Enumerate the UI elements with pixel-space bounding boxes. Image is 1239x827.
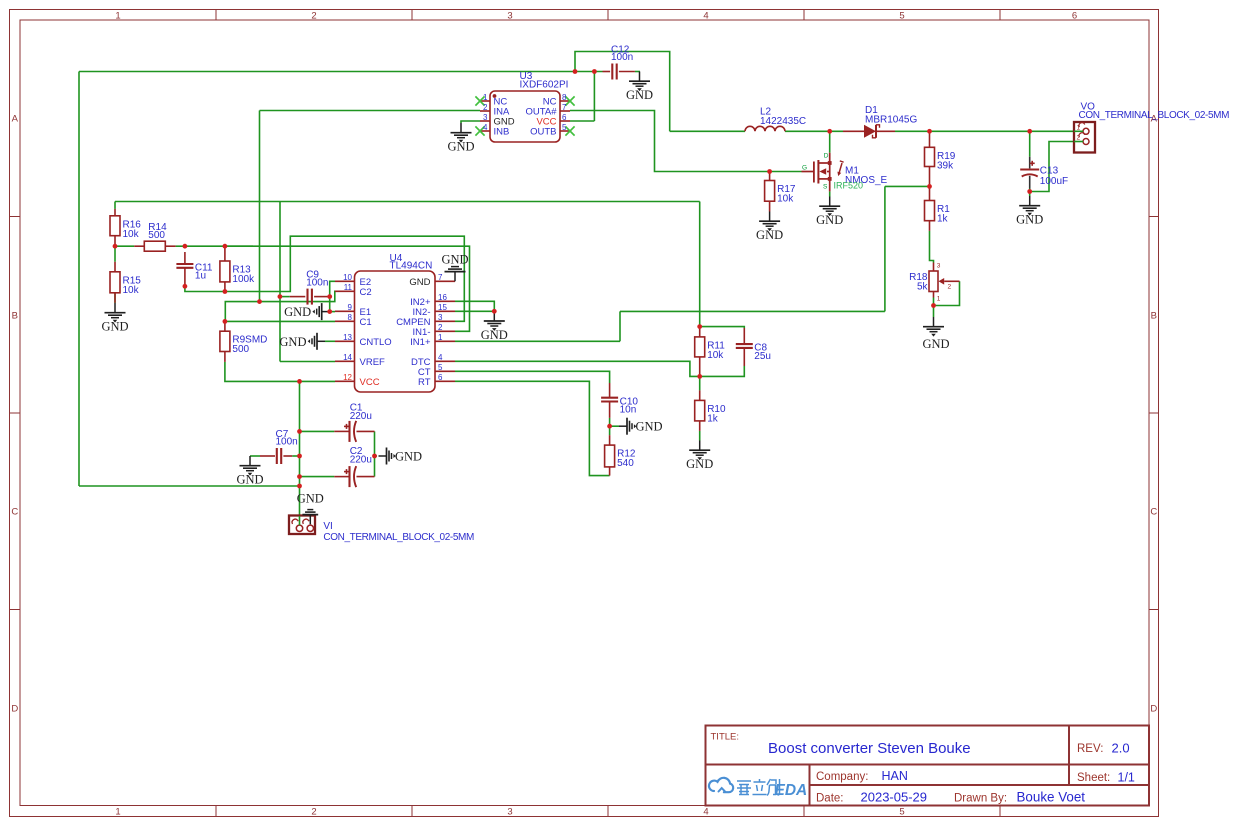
svg-text:220u: 220u — [350, 411, 372, 422]
svg-text:3: 3 — [483, 113, 488, 122]
svg-text:1u: 1u — [195, 271, 206, 282]
svg-text:9: 9 — [348, 303, 353, 312]
svg-text:4: 4 — [438, 353, 443, 362]
svg-text:2023-05-29: 2023-05-29 — [861, 790, 928, 805]
svg-text:500: 500 — [232, 344, 249, 355]
svg-text:10n: 10n — [620, 404, 637, 415]
svg-text:2: 2 — [311, 806, 316, 817]
svg-text:RT: RT — [418, 377, 431, 388]
svg-text:2.0: 2.0 — [1112, 741, 1130, 756]
svg-text:GND: GND — [409, 277, 430, 288]
svg-text:10k: 10k — [123, 229, 140, 240]
svg-text:IXDF602PI: IXDF602PI — [520, 80, 569, 91]
svg-text:4: 4 — [703, 10, 708, 21]
svg-text:1: 1 — [1077, 125, 1081, 132]
svg-text:EDA: EDA — [775, 782, 808, 799]
svg-text:C: C — [11, 507, 18, 518]
svg-text:1: 1 — [115, 10, 120, 21]
svg-text:GND: GND — [626, 88, 653, 102]
svg-text:100n: 100n — [276, 437, 298, 448]
svg-text:7: 7 — [438, 273, 443, 282]
svg-text:540: 540 — [617, 458, 634, 469]
svg-text:16: 16 — [438, 293, 447, 302]
svg-text:100n: 100n — [611, 52, 633, 63]
svg-text:1k: 1k — [937, 214, 949, 225]
svg-text:7: 7 — [562, 103, 567, 112]
svg-text:11: 11 — [344, 283, 353, 292]
svg-text:D: D — [11, 703, 18, 714]
svg-text:REV:: REV: — [1077, 743, 1103, 755]
svg-text:13: 13 — [343, 333, 352, 342]
svg-text:10k: 10k — [777, 194, 794, 205]
svg-text:VCC: VCC — [360, 377, 380, 388]
svg-text:GND: GND — [284, 305, 311, 319]
svg-text:100k: 100k — [232, 274, 255, 285]
svg-text:GND: GND — [441, 252, 468, 266]
svg-text:14: 14 — [343, 353, 352, 362]
svg-text:1: 1 — [937, 296, 941, 303]
svg-text:D: D — [1150, 703, 1157, 714]
svg-text:GND: GND — [686, 457, 713, 471]
svg-text:3: 3 — [507, 10, 512, 21]
svg-text:Boost converter Steven Bouke: Boost converter Steven Bouke — [768, 740, 971, 757]
svg-text:GND: GND — [447, 140, 474, 154]
svg-text:1k: 1k — [707, 413, 719, 424]
svg-text:D: D — [824, 153, 829, 160]
svg-text:INB: INB — [494, 127, 510, 138]
svg-text:MBR1045G: MBR1045G — [865, 115, 917, 126]
svg-text:GND: GND — [101, 320, 128, 334]
svg-text:5: 5 — [899, 10, 904, 21]
svg-text:GND: GND — [481, 328, 508, 342]
svg-text:10: 10 — [343, 273, 352, 282]
svg-text:HAN: HAN — [882, 769, 908, 783]
svg-text:3: 3 — [507, 806, 512, 817]
svg-text:Drawn By:: Drawn By: — [954, 793, 1007, 805]
svg-text:2: 2 — [438, 323, 443, 332]
svg-text:3: 3 — [937, 262, 941, 269]
svg-text:C1: C1 — [360, 317, 372, 328]
svg-text:1: 1 — [115, 806, 120, 817]
svg-text:100n: 100n — [306, 277, 328, 288]
svg-text:C: C — [1150, 507, 1157, 518]
svg-text:4: 4 — [483, 123, 488, 132]
svg-text:C2: C2 — [360, 287, 372, 298]
svg-text:TL494CN: TL494CN — [390, 261, 433, 272]
svg-text:6: 6 — [562, 113, 567, 122]
svg-text:5: 5 — [899, 806, 904, 817]
svg-text:S: S — [823, 183, 828, 190]
svg-text:500: 500 — [148, 230, 165, 241]
svg-text:1: 1 — [438, 333, 443, 342]
svg-text:2: 2 — [948, 283, 952, 290]
svg-text:GND: GND — [636, 420, 663, 434]
svg-text:Company:: Company: — [816, 771, 868, 783]
svg-text:CON_TERMINAL_BLOCK_02-5MM: CON_TERMINAL_BLOCK_02-5MM — [323, 532, 474, 543]
svg-text:GND: GND — [756, 228, 783, 242]
svg-text:Sheet:: Sheet: — [1077, 772, 1110, 784]
svg-text:Bouke Voet: Bouke Voet — [1017, 790, 1086, 805]
svg-text:5k: 5k — [917, 282, 929, 293]
svg-text:1422435C: 1422435C — [760, 116, 806, 127]
svg-text:2: 2 — [311, 10, 316, 21]
svg-text:GND: GND — [1016, 213, 1043, 227]
svg-text:C13: C13 — [1040, 166, 1059, 177]
svg-text:25u: 25u — [754, 351, 771, 362]
svg-text:B: B — [12, 310, 18, 321]
svg-text:39k: 39k — [937, 160, 954, 171]
svg-text:5: 5 — [562, 123, 567, 132]
svg-text:10k: 10k — [123, 285, 140, 296]
svg-text:IRF520: IRF520 — [834, 181, 864, 191]
svg-text:CON_TERMINAL_BLOCK_02-5MM: CON_TERMINAL_BLOCK_02-5MM — [1079, 110, 1230, 121]
svg-text:220u: 220u — [350, 454, 372, 465]
svg-text:6: 6 — [438, 373, 443, 382]
svg-text:Date:: Date: — [816, 793, 844, 805]
svg-text:GND: GND — [236, 473, 263, 487]
svg-text:4: 4 — [703, 806, 708, 817]
svg-text:1/1: 1/1 — [1118, 771, 1135, 785]
svg-text:2: 2 — [483, 103, 488, 112]
svg-text:A: A — [12, 114, 19, 125]
svg-text:CNTLO: CNTLO — [360, 337, 392, 348]
svg-text:6: 6 — [1072, 10, 1077, 21]
svg-text:10k: 10k — [707, 350, 724, 361]
svg-text:B: B — [1151, 310, 1157, 321]
svg-text:12: 12 — [343, 373, 352, 382]
svg-text:GND: GND — [922, 337, 949, 351]
svg-text:3: 3 — [438, 313, 443, 322]
svg-text:2: 2 — [1077, 135, 1081, 142]
svg-text:OUTB: OUTB — [530, 127, 556, 138]
svg-text:1: 1 — [483, 93, 488, 102]
svg-text:VI: VI — [323, 521, 332, 532]
svg-text:IN1+: IN1+ — [410, 337, 431, 348]
svg-text:GND: GND — [816, 213, 843, 227]
svg-text:GND: GND — [279, 335, 306, 349]
svg-text:100uF: 100uF — [1040, 176, 1068, 187]
svg-text:G: G — [802, 164, 807, 171]
svg-text:5: 5 — [438, 363, 443, 372]
svg-text:GND: GND — [395, 450, 422, 464]
svg-text:8: 8 — [562, 93, 567, 102]
svg-text:TITLE:: TITLE: — [711, 732, 740, 743]
svg-text:8: 8 — [348, 313, 353, 322]
svg-text:15: 15 — [438, 303, 447, 312]
svg-text:VREF: VREF — [360, 357, 386, 368]
svg-text:GND: GND — [297, 492, 324, 506]
